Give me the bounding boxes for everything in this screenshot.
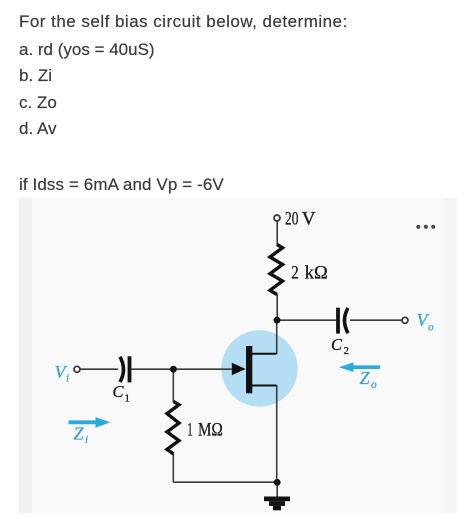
svg-text:V: V — [302, 209, 317, 229]
svg-text:i: i — [85, 434, 88, 446]
svg-text:20: 20 — [285, 209, 298, 229]
svg-text:2: 2 — [344, 345, 350, 357]
svg-text:C: C — [113, 382, 125, 401]
svg-text:Z: Z — [360, 368, 371, 388]
svg-text:Z: Z — [74, 423, 85, 443]
svg-text:i: i — [66, 373, 69, 385]
svg-text:o: o — [428, 322, 434, 334]
svg-text:MΩ: MΩ — [198, 421, 223, 441]
svg-text:C: C — [331, 335, 343, 354]
svg-text:2: 2 — [291, 264, 298, 284]
svg-text:o: o — [371, 379, 377, 391]
svg-text:1: 1 — [187, 421, 192, 441]
svg-text:1: 1 — [125, 393, 131, 405]
svg-text:kΩ: kΩ — [305, 264, 328, 284]
